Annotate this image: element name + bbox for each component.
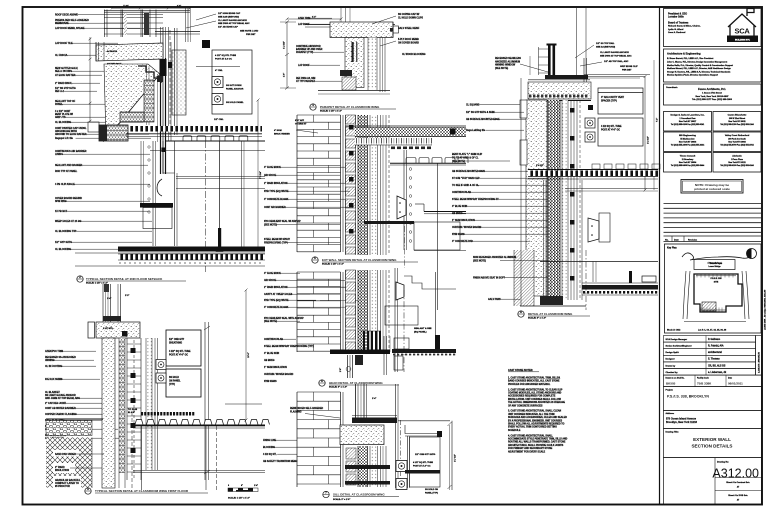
detail A: second floor deck band bbox=[126, 126, 262, 137]
detail 5: wall assembly stack bbox=[346, 270, 390, 352]
svg-text:PREMOLDED SELF-ADHERED: PREMOLDED SELF-ADHERED bbox=[55, 19, 89, 22]
SCA seal symbol bbox=[747, 249, 757, 259]
detail 3: left labels bbox=[296, 17, 344, 83]
svg-text:Revision: Revision bbox=[688, 239, 698, 241]
svg-text:Address:: Address: bbox=[666, 412, 675, 415]
detail A: hanger post bbox=[216, 141, 223, 252]
detail A: fascia heavy ink zone bbox=[157, 59, 172, 82]
svg-text:PARAPET DETAIL AT CLASSROOM WI: PARAPET DETAIL AT CLASSROOM WING bbox=[320, 105, 380, 109]
wall stack: insulation dots column bbox=[370, 270, 378, 352]
svg-text:Tel: (212) 555-2177 Fax: Tel: (212) 555-2177 Fax: (212) 555-2800 bbox=[692, 99, 733, 101]
svg-text:CL BLANKET: CL BLANKET bbox=[45, 391, 60, 394]
svg-text:4 Story School: 4 Story School bbox=[707, 262, 721, 265]
svg-text:INSULATION: INSULATION bbox=[55, 469, 69, 472]
svg-text:06/01/2011: 06/01/2011 bbox=[728, 381, 743, 385]
svg-text:OF ANY CONCRETE SURFACES: OF ANY CONCRETE SURFACES bbox=[508, 404, 543, 407]
detail A: top-right leader annotations bbox=[186, 12, 259, 36]
detail 5: caption bbox=[319, 379, 399, 388]
detail B: graphic scale bar bbox=[228, 488, 258, 492]
svg-text:2" RIGID INSUL: 2" RIGID INSUL bbox=[55, 83, 73, 85]
svg-text:(SEE NOTE): (SEE NOTE) bbox=[495, 68, 508, 70]
svg-text:Date: Date bbox=[728, 377, 732, 380]
detail 6: right frame with anchors bbox=[396, 384, 457, 494]
svg-text:WEEP HOLES AT 24 OC: WEEP HOLES AT 24 OC bbox=[55, 220, 82, 223]
svg-text:SPM RING: SPM RING bbox=[55, 201, 67, 203]
svg-text:Tel (212) 555-1200 Fax (212): Tel (212) 555-1200 Fax (212) 555-1244 bbox=[720, 123, 754, 126]
detail A: concrete roof slab band bbox=[96, 42, 163, 66]
right detail: wall base bbox=[514, 250, 586, 310]
svg-text:0: 0 bbox=[228, 485, 229, 487]
svg-text:Richard Santa & Milon, Chairm.: Richard Santa & Milon, Chairm. bbox=[668, 25, 701, 28]
svg-text:4" ADA CAVITY VENT: 4" ADA CAVITY VENT bbox=[601, 96, 625, 99]
svg-text:AT EACH RAFTER: AT EACH RAFTER bbox=[55, 74, 76, 77]
svg-text:FLASHING: FLASHING bbox=[290, 410, 302, 413]
detail 3: parapet cap slab (stipple) bbox=[305, 22, 399, 38]
detail 6: left brick grid large bbox=[297, 392, 343, 487]
svg-text:Sheet # in Contract Set:: Sheet # in Contract Set: bbox=[726, 481, 750, 484]
detail B: wall assembly - stud ladder column bbox=[119, 338, 125, 488]
svg-text:POST AT 4-0 OC: POST AT 4-0 OC bbox=[215, 58, 232, 61]
svg-text:Design Spirit: Design Spirit bbox=[666, 351, 679, 354]
svg-text:Martha Galfo, P.A., Director,: Martha Galfo, P.A., Director, Quality Co… bbox=[667, 64, 733, 67]
right detail: railing mast above parapet bbox=[530, 44, 557, 77]
detail 3: top dimension line bbox=[286, 8, 351, 37]
svg-text:FOR PRIMARY AND SECONDARY STON: FOR PRIMARY AND SECONDARY STONE bbox=[508, 447, 553, 450]
svg-text:AB BRKG: AB BRKG bbox=[452, 212, 463, 215]
svg-text:Brooklyn, New York 11218: Brooklyn, New York 11218 bbox=[666, 421, 698, 424]
svg-text:ST SUB "FUR" SIGN CLIP: ST SUB "FUR" SIGN CLIP bbox=[452, 178, 480, 180]
svg-text:AZEK TRIM: AZEK TRIM bbox=[298, 17, 310, 20]
svg-text:ROD TYP AT PANEL: ROD TYP AT PANEL bbox=[55, 170, 78, 173]
svg-text:Monica Spoiden-Plack, Director: Monica Spoiden-Plack, Director, Operatio… bbox=[667, 74, 718, 77]
svg-text:SCALE: 1 1/2" = 1'-0": SCALE: 1 1/2" = 1'-0" bbox=[322, 263, 344, 266]
detail 4: left brick elevation grid bbox=[297, 115, 343, 252]
svg-text:1/2" OSB GYP SHTG: 1/2" OSB GYP SHTG bbox=[415, 454, 436, 456]
svg-text:Architecture & Engineering: Architecture & Engineering bbox=[667, 52, 701, 56]
svg-text:No.: No. bbox=[665, 239, 669, 241]
detail 3: base angle and hatch block bbox=[318, 70, 390, 94]
svg-text:SEALANT & SEE: SEALANT & SEE bbox=[414, 327, 432, 330]
detail A: gutter open box bbox=[88, 122, 99, 132]
svg-text:(SEE NOTE): (SEE NOTE) bbox=[473, 260, 486, 262]
svg-text:1/2" AB EDGE CAP: 1/2" AB EDGE CAP bbox=[218, 26, 238, 29]
svg-text:MG Engineering: MG Engineering bbox=[679, 135, 696, 137]
detail 4: hung ceiling dashed row bbox=[391, 147, 431, 150]
detail A: left annotation labels bbox=[55, 14, 163, 157]
svg-text:P.S./I.S. 338: P.S./I.S. 338 bbox=[711, 278, 723, 280]
svg-text:Lower Bridge: Lower Bridge bbox=[708, 266, 720, 268]
svg-text:7'-2 1/4": 7'-2 1/4" bbox=[259, 171, 262, 179]
svg-text:Regu-Lak/Reg tile: Regu-Lak/Reg tile bbox=[466, 129, 486, 132]
svg-text:P.S./I.S. 338, BROOKLYN: P.S./I.S. 338, BROOKLYN bbox=[667, 395, 709, 399]
svg-text:1/2" OSB GYP: 1/2" OSB GYP bbox=[169, 339, 185, 341]
svg-text:(SEE NOTE): (SEE NOTE) bbox=[264, 224, 277, 226]
title block: six consultant sub-boxes bbox=[664, 112, 762, 173]
svg-text:SCALE: 3" = 1'-0": SCALE: 3" = 1'-0" bbox=[333, 498, 350, 501]
svg-text:6": 6" bbox=[241, 485, 243, 487]
detail 5: lintel black band bbox=[330, 350, 390, 366]
detail A: wall step at interior bbox=[163, 141, 265, 246]
svg-text:1'-4": 1'-4" bbox=[107, 297, 111, 300]
right detail: top right horizontals bbox=[584, 75, 650, 79]
svg-text:Designer: Designer bbox=[666, 359, 675, 361]
svg-text:(SEE NOTE): (SEE NOTE) bbox=[452, 161, 465, 163]
svg-text:4 1/2" SQ STL TUBE: 4 1/2" SQ STL TUBE bbox=[215, 54, 236, 57]
svg-text:BENT PLATE "L" SHIM CLIP: BENT PLATE "L" SHIM CLIP bbox=[452, 153, 483, 156]
svg-text:1'-4": 1'-4" bbox=[372, 397, 376, 400]
detail 6: stone sill (stipple) bbox=[340, 425, 384, 445]
svg-text:SEALANT AND BACKER: SEALANT AND BACKER bbox=[55, 164, 83, 167]
svg-text:11 Broadway: 11 Broadway bbox=[682, 159, 695, 161]
svg-text:CONTINUE AIR/VAPOR: CONTINUE AIR/VAPOR bbox=[296, 45, 321, 48]
svg-text:4" CML: 4" CML bbox=[215, 69, 223, 72]
svg-text:CR, BS, ALS DS: CR, BS, ALS DS bbox=[708, 364, 726, 367]
svg-text:CONT AIR BARRIER: CONT AIR BARRIER bbox=[264, 206, 286, 209]
svg-text:AWNING WINDOW: AWNING WINDOW bbox=[495, 64, 516, 67]
svg-text:PANEL ANCHOR: PANEL ANCHOR bbox=[226, 88, 244, 91]
detail B: left annotation labels bbox=[45, 350, 120, 440]
detail 4: ceiling tab clips and line bbox=[390, 158, 468, 166]
svg-text:1'-6": 1'-6" bbox=[284, 73, 286, 77]
svg-text:New York, New York 10010-6807: New York, New York 10010-6807 bbox=[695, 96, 729, 98]
right detail: inner face verticals below band bbox=[544, 180, 547, 296]
detail 4: caption bbox=[312, 256, 418, 265]
svg-text:SEALANT TOP OF: SEALANT TOP OF bbox=[55, 100, 76, 103]
svg-text:President & CEO: President & CEO bbox=[668, 13, 687, 16]
svg-text:LAP ROOF MEMB, SPLICE: LAP ROOF MEMB, SPLICE bbox=[55, 27, 85, 30]
svg-text:CL FASCIA: CL FASCIA bbox=[55, 54, 68, 57]
svg-text:PANEL (TYP): PANEL (TYP) bbox=[425, 491, 438, 494]
detail 5: window head frame bars bbox=[361, 331, 381, 350]
svg-text:95 PROCTOR: 95 PROCTOR bbox=[55, 486, 70, 488]
svg-text:New York NY 10004: New York NY 10004 bbox=[679, 161, 697, 164]
detail 6: window mullion above sill bbox=[352, 384, 397, 423]
svg-text:Tirone Consult: Tirone Consult bbox=[680, 155, 696, 158]
svg-text:(SEE NOTE): (SEE NOTE) bbox=[264, 321, 277, 323]
detail A: centerline bbox=[205, 141, 207, 272]
svg-text:PROFILES FOR ANCHORED MATERIAL: PROFILES FOR ANCHORED MATERIAL bbox=[508, 383, 551, 386]
detail A: interior stud lines lower bbox=[141, 141, 166, 246]
svg-text:SHEATHING: SHEATHING bbox=[169, 341, 182, 344]
svg-text:PER DET: PER DET bbox=[246, 34, 256, 36]
detail B: wall assembly - insulation dot column bbox=[146, 338, 152, 470]
svg-text:SEE A3 (BEYOND): SEE A3 (BEYOND) bbox=[596, 45, 615, 48]
svg-text:New York NY 10011: New York NY 10011 bbox=[728, 121, 745, 123]
svg-text:P. Galicano: P. Galicano bbox=[708, 339, 721, 341]
svg-text:4 PB CLIP ANGLE: 4 PB CLIP ANGLE bbox=[55, 183, 75, 186]
svg-text:printed at reduced scale: printed at reduced scale bbox=[694, 187, 730, 191]
right detail: lower ceiling lines bbox=[565, 189, 658, 192]
title block divider line bbox=[659, 7, 661, 505]
svg-text:4" FACE BRICK: 4" FACE BRICK bbox=[264, 272, 281, 275]
detail A: upper parapet brick grid bbox=[104, 10, 190, 38]
detail B: first floor slab with metal deck bbox=[128, 404, 270, 490]
svg-text:Matthew Monari, P.E., LEED A.P: Matthew Monari, P.E., LEED A.P., Directo… bbox=[667, 67, 731, 70]
right detail: outer face lines bbox=[570, 100, 572, 300]
svg-text:CONT PAINTED CAP UNDSL: CONT PAINTED CAP UNDSL bbox=[55, 127, 87, 130]
detail A: stipple column right of wall bbox=[172, 50, 186, 115]
svg-text:4 1/2 SQ STL: 4 1/2 SQ STL bbox=[263, 453, 277, 456]
svg-text:SCHEDULE: SCHEDULE bbox=[508, 430, 521, 432]
svg-text:1'-2 3/4": 1'-2 3/4" bbox=[283, 41, 286, 49]
svg-text:PARAPET (TYP): PARAPET (TYP) bbox=[296, 51, 313, 54]
svg-text:T.O. SLAB: T.O. SLAB bbox=[128, 408, 138, 411]
svg-text:SS SHT DOWN: SS SHT DOWN bbox=[226, 85, 242, 87]
detail 4: beyond-wall dotted column bbox=[404, 150, 412, 250]
svg-text:CL WOOD BLOCKING: CL WOOD BLOCKING bbox=[402, 54, 426, 56]
svg-text:Key Plan: Key Plan bbox=[667, 248, 677, 250]
detail A: interior shelf and cabinet bbox=[140, 203, 173, 229]
svg-text:1-2345-678 - BROOKLYN: 1-2345-678 - BROOKLYN bbox=[757, 351, 760, 373]
svg-text:55 Madison Ave: 55 Madison Ave bbox=[680, 138, 694, 141]
detail A: regupol tile grid bars bbox=[120, 80, 154, 122]
svg-text:2'-0": 2'-0" bbox=[177, 6, 181, 8]
svg-text:REINFORCED SELF-ADHERED: REINFORCED SELF-ADHERED bbox=[290, 407, 324, 410]
svg-text:SS HOLD PANEL: SS HOLD PANEL bbox=[226, 101, 244, 104]
svg-text:BAND COURSES INDICATED, ALL CA: BAND COURSES INDICATED, ALL CAST STONE bbox=[508, 380, 560, 383]
svg-text:SCALE: 1 1/2" = 1'-0": SCALE: 1 1/2" = 1'-0" bbox=[320, 110, 342, 113]
svg-text:POST AT 4'-0" OC: POST AT 4'-0" OC bbox=[601, 128, 620, 131]
svg-text:LLW45 DBK - Brooklyn 06/01/201: LLW45 DBK - Brooklyn 06/01/2011 A312.00 bbox=[764, 289, 767, 330]
svg-text:TO FIT AT GRID & OF CL: TO FIT AT GRID & OF CL bbox=[452, 156, 479, 159]
svg-text:BENT PLATE W/: BENT PLATE W/ bbox=[55, 113, 73, 116]
svg-text:AB SURFACE MOUNTED SIGN: AB SURFACE MOUNTED SIGN bbox=[452, 170, 485, 173]
svg-text:NYB TYPE (EQ) WHITE: NYB TYPE (EQ) WHITE bbox=[264, 191, 289, 193]
detail 6: left annotation labels bbox=[263, 407, 340, 463]
svg-text:1/2" SS GYP SHTG & SHIM: 1/2" SS GYP SHTG & SHIM bbox=[466, 112, 495, 114]
svg-text:BK505: BK505 bbox=[666, 381, 676, 385]
svg-text:3. CAST STONE ARCHITECTURAL SH: 3. CAST STONE ARCHITECTURAL SHALL CLEAN bbox=[508, 410, 562, 413]
svg-text:Drawn by: Drawn by bbox=[666, 365, 676, 367]
svg-text:4" FACE BRICK: 4" FACE BRICK bbox=[264, 166, 281, 169]
svg-text:NEW GUTTER GALV,: NEW GUTTER GALV, bbox=[55, 67, 78, 70]
svg-text:THE ACTUAL DIMENSIONS ADJUSTED: THE ACTUAL DIMENSIONS ADJUSTED AS AVERAG… bbox=[508, 401, 565, 404]
title block: address box bbox=[664, 411, 762, 429]
svg-text:EXT WALL SECTION DETAIL AT CLA: EXT WALL SECTION DETAIL AT CLASSROOM WIN… bbox=[322, 258, 397, 262]
svg-text:SS HOLD: SS HOLD bbox=[169, 377, 179, 379]
svg-text:GALV PANS: GALV PANS bbox=[488, 298, 501, 301]
svg-text:Lot #: 1, 16, 17, 34, 35, 36,: Lot #: 1, 16, 17, 34, 35, 36, 38 bbox=[698, 329, 727, 332]
svg-text:Board of Trustees: Board of Trustees bbox=[668, 22, 689, 25]
svg-text:GALV STEEL REINF: GALV STEEL REINF bbox=[398, 27, 420, 30]
svg-text:COATING MODULES, ALL STONE ANC: COATING MODULES, ALL STONE ANCHORS AND bbox=[508, 392, 562, 395]
svg-text:AT TYP PARAPET: AT TYP PARAPET bbox=[296, 80, 316, 83]
wall stack: CMU dark crosshatch column bbox=[358, 115, 368, 255]
right detail: parapet coping band bbox=[528, 75, 590, 80]
detail A: concrete roof haunch (stippled wedge) bbox=[100, 64, 162, 142]
svg-text:CONTINUOUS AB: CONTINUOUS AB bbox=[264, 338, 283, 341]
svg-text:CL LIGHT GAUGE ANCHOR: CL LIGHT GAUGE ANCHOR bbox=[218, 19, 247, 22]
svg-text:Date: Date bbox=[674, 238, 680, 241]
svg-text:LINING: LINING bbox=[55, 154, 63, 156]
svg-text:New York NY 10121: New York NY 10121 bbox=[728, 162, 745, 164]
svg-text:RECESSED SS-ANCHORED: RECESSED SS-ANCHORED bbox=[45, 356, 76, 359]
detail B: ground annotations bbox=[53, 450, 79, 457]
detail 5: long leader lines bbox=[290, 279, 345, 281]
svg-text:1/2" SS GYP SHTG: 1/2" SS GYP SHTG bbox=[55, 88, 76, 90]
svg-text:ADJUSTMENT FOR EVERY SCALE: ADJUSTMENT FOR EVERY SCALE bbox=[508, 450, 546, 453]
svg-text:NYB TYPE (EQ) WHITE: NYB TYPE (EQ) WHITE bbox=[264, 300, 289, 302]
svg-text:573 Ocean Island Avenue: 573 Ocean Island Avenue bbox=[666, 418, 697, 421]
svg-text:EXTERIOR WALL: EXTERIOR WALL bbox=[693, 437, 731, 442]
cast stone notes text block bbox=[508, 369, 568, 453]
detail A: right panel box with anchors bbox=[196, 40, 252, 121]
svg-text:4" CONCRETE BLOCK: 4" CONCRETE BLOCK bbox=[264, 198, 289, 201]
detail 3: dimension column bbox=[280, 21, 296, 90]
svg-text:Jose A. Rodrend: Jose A. Rodrend bbox=[668, 31, 686, 34]
right margin vertical document number bbox=[764, 289, 767, 330]
svg-text:TYPICAL SECTION DETAIL AT 2ND: TYPICAL SECTION DETAIL AT 2ND FLOOR SETB… bbox=[86, 277, 163, 281]
detail B: right equipment boxes with anchors bbox=[156, 330, 201, 397]
svg-text:architectural: architectural bbox=[708, 351, 722, 354]
svg-text:HEAD DETAIL AT CLASSROOM WING: HEAD DETAIL AT CLASSROOM WING bbox=[329, 381, 383, 385]
svg-text:NYC RESILIENT SEAL W/ AIR/VAP: NYC RESILIENT SEAL W/ AIR/VAP bbox=[264, 220, 301, 223]
svg-text:AB SAFETY TRANSITION MESH: AB SAFETY TRANSITION MESH bbox=[263, 460, 298, 463]
svg-text:SEE NOTE 1 AND: SEE NOTE 1 AND bbox=[240, 30, 259, 33]
svg-text:FIREPROOFING (TYP): FIREPROOFING (TYP) bbox=[264, 242, 288, 244]
svg-text:AIR SPACE: AIR SPACE bbox=[264, 279, 277, 282]
svg-text:1/2" HIGH EDGE CAP: 1/2" HIGH EDGE CAP bbox=[218, 12, 241, 15]
svg-text:EL 0'-0": EL 0'-0" bbox=[128, 412, 135, 414]
svg-text:1X PB BAT: 1X PB BAT bbox=[55, 210, 68, 213]
detail A: lower left labels bbox=[55, 164, 152, 251]
svg-text:AWNING: AWNING bbox=[45, 359, 55, 362]
wall stack: inner finish lines bbox=[380, 115, 382, 255]
detail 5: right step profile and frame bbox=[385, 268, 456, 372]
detail A: relieving angle hook bbox=[157, 179, 162, 196]
title block: drawing number A312.00 bbox=[664, 458, 762, 505]
svg-text:CONTINUOUS AB: CONTINUOUS AB bbox=[452, 191, 471, 194]
svg-text:ACCESSORIES REQUIRED FOR COMPL: ACCESSORIES REQUIRED FOR COMPLETE bbox=[508, 395, 556, 398]
svg-text:FINISH LINE: FINISH LINE bbox=[263, 440, 277, 442]
svg-text:SEE DWG AT TOP BEAM, ANC: SEE DWG AT TOP BEAM, ANC bbox=[218, 22, 250, 25]
right detail: anchor fixtures bbox=[585, 118, 595, 128]
svg-text:1 Consultant Row: 1 Consultant Row bbox=[680, 117, 696, 120]
svg-text:(EQ PANEL): (EQ PANEL) bbox=[414, 330, 427, 333]
detail 6: caption bbox=[323, 491, 399, 501]
svg-text:LAP ROOF TILE: LAP ROOF TILE bbox=[55, 42, 73, 45]
svg-text:SCALE: 3" = 1'-0": SCALE: 3" = 1'-0" bbox=[528, 317, 546, 320]
svg-text:STEEL BEAM W/SPRAY FIREPROOFIN: STEEL BEAM W/SPRAY FIREPROOFING (TYP) bbox=[264, 345, 314, 348]
svg-text:AB BRKG: AB BRKG bbox=[264, 359, 275, 362]
svg-text:2'-7 1/2": 2'-7 1/2" bbox=[455, 454, 457, 462]
svg-text:SEE A3/8 (BEYOND): SEE A3/8 (BEYOND) bbox=[218, 15, 239, 18]
right detail: lower right elements bbox=[540, 180, 658, 300]
svg-text:1/2" SS TOP RAIL: 1/2" SS TOP RAIL bbox=[596, 42, 615, 45]
svg-text:3 1/2" MTL: 3 1/2" MTL bbox=[103, 328, 114, 330]
svg-text:SAND PAD UNDER: SAND PAD UNDER bbox=[55, 453, 76, 456]
detail A: main wall face vertical lines bbox=[161, 27, 172, 174]
svg-text:1/2" AB TOP RAIL, ANC: 1/2" AB TOP RAIL, ANC bbox=[604, 60, 629, 63]
svg-text:AROUND TO EACH RAFTER: AROUND TO EACH RAFTER bbox=[55, 133, 87, 136]
svg-text:4" CONCRETE PAD: 4" CONCRETE PAD bbox=[452, 240, 473, 243]
svg-text:(TYP): (TYP) bbox=[169, 384, 175, 386]
svg-text:2'-3 1/2": 2'-3 1/2" bbox=[648, 136, 650, 144]
detail B: caption - typical section detail at classroom wing first floor bbox=[85, 484, 258, 500]
svg-text:ON PANEL: ON PANEL bbox=[169, 379, 181, 382]
svg-text:CAVITY AT / WEEP HOLES: CAVITY AT / WEEP HOLES bbox=[264, 293, 293, 296]
svg-text:SS HOLD ON: SS HOLD ON bbox=[425, 489, 438, 491]
svg-text:Block #: 1642: Block #: 1642 bbox=[667, 329, 681, 332]
detail A: right floor lines bbox=[150, 141, 265, 272]
svg-text:ARCHITECTURAL SHALL PROVIDE CA: ARCHITECTURAL SHALL PROVIDE CAULK JOINTS bbox=[508, 444, 564, 447]
svg-text:STEEL BEAM W/ SPRAY: STEEL BEAM W/ SPRAY bbox=[264, 238, 291, 241]
detail A: outer rail verticals bbox=[155, 28, 200, 135]
wall stack: inner finish lines bbox=[380, 270, 382, 352]
svg-text:Abelardo: Abelardo bbox=[732, 155, 742, 158]
right detail: lower floor band bbox=[582, 271, 658, 295]
svg-text:SPACER (TYP): SPACER (TYP) bbox=[601, 99, 617, 102]
detail B: right edge dimension lines bbox=[204, 322, 210, 480]
svg-text:2" RIGID INSULATION: 2" RIGID INSULATION bbox=[264, 286, 288, 289]
svg-text:GRANULAR BACKFILL: GRANULAR BACKFILL bbox=[55, 479, 81, 482]
svg-text:4" BLUE SKIN: 4" BLUE SKIN bbox=[264, 352, 279, 355]
title block: drawing title box bbox=[664, 429, 762, 458]
title block: key plan label and signature bbox=[665, 244, 762, 333]
title block: architecture & engineering box bbox=[664, 49, 762, 82]
svg-text:New York NY 10016: New York NY 10016 bbox=[679, 142, 696, 144]
detail A: top dimension ticks bbox=[111, 6, 191, 10]
svg-text:PER DET: PER DET bbox=[622, 69, 632, 71]
svg-text:CL HOLD DOWN CLIPS: CL HOLD DOWN CLIPS bbox=[398, 17, 423, 19]
svg-text:SECTION DETAILS: SECTION DETAILS bbox=[691, 444, 732, 449]
svg-text:SCALE: 3" = 1'-0": SCALE: 3" = 1'-0" bbox=[329, 386, 347, 389]
title block: SCA No / Facility Code / Date row bbox=[664, 375, 762, 387]
svg-text:Senior Architect/Engineer: Senior Architect/Engineer bbox=[666, 345, 692, 348]
svg-text:REF A-2: REF A-2 bbox=[55, 90, 65, 93]
svg-text:1/2" GYP SHTG: 1/2" GYP SHTG bbox=[55, 242, 72, 244]
svg-text:SILL DETAIL AT CLASSROOM WING: SILL DETAIL AT CLASSROOM WING bbox=[333, 492, 385, 496]
svg-text:2" CAV REG JOINT: 2" CAV REG JOINT bbox=[45, 402, 67, 405]
svg-text:BRICK VENEER: BRICK VENEER bbox=[274, 133, 290, 135]
svg-text:4 1/2" SQ STL TUBE: 4 1/2" SQ STL TUBE bbox=[169, 350, 191, 353]
svg-text:POST AT 4'-0" OC: POST AT 4'-0" OC bbox=[413, 464, 431, 467]
svg-text:A312.00: A312.00 bbox=[712, 467, 759, 481]
detail 3: right leader labels bbox=[372, 13, 426, 56]
svg-text:ROOF DECK ABOVE: ROOF DECK ABOVE bbox=[55, 14, 78, 17]
svg-text:SCA Design Manager: SCA Design Manager bbox=[666, 338, 688, 341]
svg-text:E. Bruce Barrett, P.E., LEED A: E. Bruce Barrett, P.E., LEED A.P., Vice … bbox=[667, 57, 714, 60]
right detail: concrete column stipple (upper) bbox=[520, 100, 547, 296]
svg-text:2" RIGID INSULATION: 2" RIGID INSULATION bbox=[264, 182, 288, 185]
svg-text:ICE RAX SHIMS: ICE RAX SHIMS bbox=[45, 378, 63, 381]
svg-text:CL SQUARE: CL SQUARE bbox=[466, 104, 480, 107]
svg-text:Fusco Architects, P.C.: Fusco Architects, P.C. bbox=[698, 87, 726, 91]
svg-text:Tel (212) 555-5400 Fax (212): Tel (212) 555-5400 Fax (212) 555-5444 bbox=[671, 164, 705, 167]
title block: project name box bbox=[664, 387, 762, 411]
detail B: earth hatch below grade bbox=[46, 438, 92, 488]
svg-text:10'-0": 10'-0" bbox=[248, 352, 250, 357]
svg-text:ON COVER BOARD: ON COVER BOARD bbox=[398, 41, 419, 44]
svg-text:AZEK/PVC TRIM: AZEK/PVC TRIM bbox=[45, 350, 63, 353]
svg-text:NON RECESSED ANODIZED ALUMINUM: NON RECESSED ANODIZED ALUMINUM bbox=[473, 256, 516, 259]
svg-text:Lydia G. Allard: Lydia G. Allard bbox=[668, 28, 684, 31]
svg-text:MEMBRANE: MEMBRANE bbox=[55, 22, 69, 25]
svg-text:STEEL BEAM W/SPRAY FIREPROOFIN: STEEL BEAM W/SPRAY FIREPROOFING TY bbox=[452, 198, 499, 201]
svg-text:REF DWG A3, SIM: REF DWG A3, SIM bbox=[296, 77, 315, 80]
svg-text:Design & Jacks & Laurelton, In: Design & Jacks & Laurelton, Inc. bbox=[671, 114, 705, 117]
detail A: beyond-wall dotted column bbox=[148, 146, 150, 213]
svg-text:LAP ROOF: LAP ROOF bbox=[298, 64, 310, 67]
svg-text:4 x 1/2" CONT: 4 x 1/2" CONT bbox=[55, 110, 71, 113]
title block: NOTE reduced-scale box bbox=[681, 180, 743, 194]
detail 5: left annotation labels bbox=[264, 272, 358, 383]
svg-text:1" SHIM INSULATION: 1" SHIM INSULATION bbox=[264, 366, 287, 369]
detail 4: roof deck crosshatch band bbox=[345, 126, 466, 145]
svg-text:Drawing Title:: Drawing Title: bbox=[666, 430, 680, 433]
wall stack: brick veneer diag-hatch blocks bbox=[346, 270, 356, 279]
svg-text:2" RIGID: 2" RIGID bbox=[55, 467, 65, 469]
